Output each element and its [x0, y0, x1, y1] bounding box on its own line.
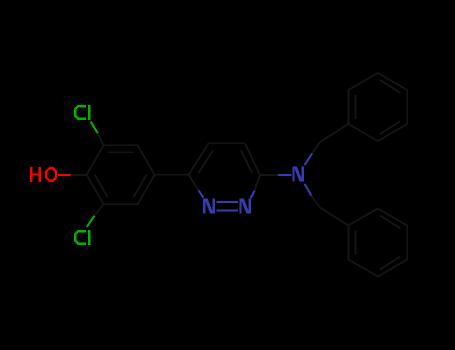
- atom label Cl bottom: [74, 230, 91, 245]
- bond N2-C3 gray half: [255, 175, 261, 191]
- bond C6-N1 gray half: [189, 175, 199, 191]
- bond C6-N1 blue half: [199, 190, 204, 197]
- benzyl phenyl ring upper: [348, 73, 407, 141]
- bond C-Cl bottom: gray half: [95, 204, 104, 216]
- benzyl phenyl ring lower: [348, 209, 407, 277]
- atom label Cl top: [74, 105, 91, 120]
- double bond N1=N2 lower line: [216, 209, 238, 211]
- pyridazine double bond inner line C5-C6: [199, 150, 214, 173]
- benzene ring (phenol ring): [87, 145, 155, 204]
- atom label N2: [239, 199, 251, 214]
- benzene double bond inner line top: [108, 151, 134, 153]
- bond N3-CH2 lower blue half: [305, 184, 312, 196]
- bond CH2-ipso lower benzyl: [320, 208, 348, 226]
- bond C-Cl bottom: green half: [87, 216, 95, 227]
- atom label N3 amine nitrogen: [292, 166, 304, 181]
- double bond N1=N2 upper line: [216, 201, 238, 203]
- bond O-C gray half: [71, 174, 87, 176]
- bond C-Cl top: green half: [91, 121, 98, 133]
- bond C3-N3 gray half: [260, 174, 278, 176]
- bond O-C red half: [58, 174, 71, 176]
- bond C3-N3 blue half: [278, 174, 292, 176]
- biaryl bond benzene-pyridazine: [155, 174, 189, 176]
- pyridazine ring top bonds C6-C5, C5-C4, C4-C3: [189, 143, 260, 175]
- atom label O (of HO): [45, 167, 57, 182]
- bond C-Cl top: gray half: [98, 133, 104, 145]
- bond N3-CH2 upper gray half: [312, 142, 320, 153]
- bond N2-C3 blue half: [251, 191, 255, 198]
- atom label H (of HO): [30, 167, 41, 182]
- bond N3-CH2 upper blue half: [305, 153, 313, 165]
- bond CH2-ipso upper benzyl: [320, 124, 348, 142]
- benzene double bond inner line right-bottom: [134, 175, 147, 197]
- benzene double bond inner line left-bottom: [95, 175, 108, 197]
- atom label N1: [203, 199, 215, 214]
- bond N3-CH2 lower gray half: [311, 196, 320, 208]
- pyridazine double bond inner line C3-C4: [241, 150, 252, 173]
